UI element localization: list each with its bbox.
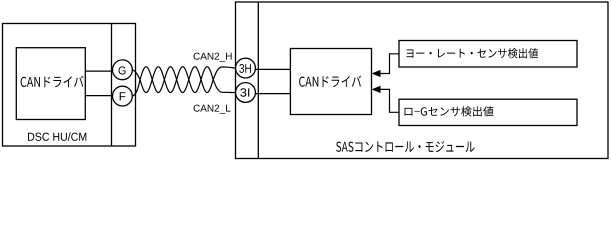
twisted pair strand CAN2_L (pin F to pin 3H braid) bbox=[132, 67, 235, 96]
net label CAN2_L bbox=[194, 105, 231, 114]
label yaw-rate sensor detected value bbox=[407, 48, 539, 59]
CAN driver box (SAS side) bbox=[290, 49, 371, 115]
wire low-G box to CAN driver arrow bbox=[374, 89, 400, 112]
label CAN driver (DSC side) bbox=[21, 76, 84, 88]
twisted pair strand CAN2_H (pin G to pin 3I braid) bbox=[132, 67, 235, 93]
wire pin 3I to CAN driver bbox=[255, 93, 290, 95]
SAS connector strip divider bbox=[257, 2, 259, 159]
arrowhead into CAN driver (upper) bbox=[372, 70, 381, 77]
connector pin F bbox=[113, 86, 133, 106]
DSC connector strip divider bbox=[111, 24, 113, 147]
arrowhead into CAN driver (lower) bbox=[372, 86, 381, 93]
wire CAN driver to pin F bbox=[85, 95, 112, 97]
CAN driver box (DSC side) bbox=[16, 48, 85, 120]
label low-G sensor detected value bbox=[405, 106, 494, 116]
connector pin 3I bbox=[236, 83, 256, 103]
label CAN driver (SAS side) bbox=[299, 76, 361, 88]
DSC HU/CM module outer box bbox=[3, 24, 136, 147]
net label CAN2_H bbox=[194, 53, 232, 62]
wire pin 3H to CAN driver bbox=[255, 68, 290, 70]
connector pin 3H bbox=[236, 58, 256, 78]
connector pin G bbox=[113, 60, 133, 80]
wire yaw-rate box to CAN driver arrow bbox=[374, 54, 400, 74]
low-G sensor value box bbox=[399, 99, 577, 125]
yaw-rate sensor value box bbox=[399, 41, 577, 68]
label DSC HU/CM bbox=[28, 132, 86, 141]
SAS control module outer box bbox=[236, 2, 609, 159]
wire CAN driver to pin G bbox=[85, 70, 112, 72]
label SAS control module bbox=[336, 141, 475, 152]
